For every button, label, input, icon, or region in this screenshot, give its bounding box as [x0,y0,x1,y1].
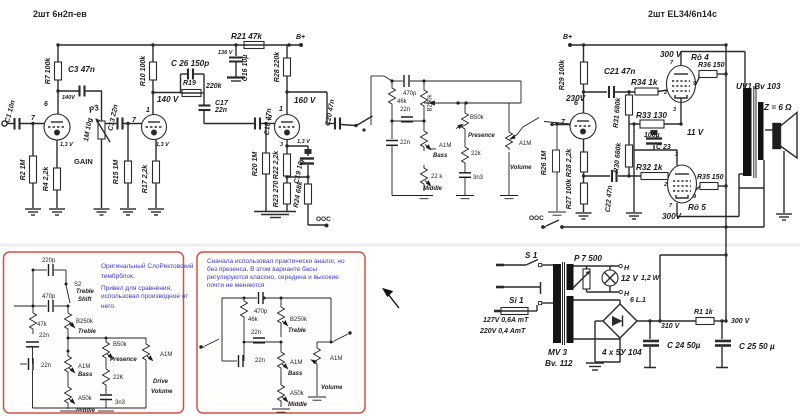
svg-text:Treble: Treble [288,328,307,334]
svg-text:47k: 47k [37,322,48,328]
svg-text:него.: него. [101,303,116,310]
svg-text:R34 1k: R34 1k [631,78,658,87]
svg-text:2: 2 [663,90,667,96]
svg-text:A50k: A50k [290,391,305,397]
svg-text:6: 6 [44,101,48,108]
svg-text:A1M: A1M [78,364,90,370]
svg-text:Z = 6 Ω: Z = 6 Ω [763,103,792,112]
svg-text:R36 150: R36 150 [698,62,725,69]
svg-text:22n: 22n [255,358,265,364]
svg-text:140 V: 140 V [157,95,180,104]
svg-text:127V 0,6A mT: 127V 0,6A mT [483,317,529,324]
svg-text:R27 100k: R27 100k [566,178,573,209]
svg-text:Bass: Bass [433,153,448,159]
svg-text:регулируются классно, середина: регулируются классно, середина и высокие [207,274,339,281]
svg-text:100µ: 100µ [644,132,660,139]
svg-text:22n: 22n [41,363,51,369]
svg-text:R29 100k: R29 100k [559,59,566,90]
svg-text:использовал производное от: использовал производное от [101,293,188,300]
svg-text:C 26 150p: C 26 150p [171,59,209,68]
svg-text:46k: 46k [397,99,408,105]
svg-text:22n: 22n [400,107,410,113]
svg-text:Volume: Volume [151,389,173,395]
svg-text:2шт EL34/6n14c: 2шт EL34/6n14c [648,9,717,19]
svg-text:Presence: Presence [110,357,137,363]
svg-text:почти не меняются: почти не меняются [207,282,265,289]
svg-text:OOC: OOC [529,215,544,222]
svg-text:2: 2 [267,115,272,122]
svg-text:B250k: B250k [290,317,308,323]
svg-text:A1M: A1M [160,352,172,358]
svg-text:22k: 22k [471,151,482,157]
svg-text:1,3 V: 1,3 V [60,142,74,148]
svg-text:1,3 V: 1,3 V [297,139,311,145]
svg-text:R7 100k: R7 100k [45,57,52,85]
svg-text:R22 2,2k: R22 2,2k [273,150,280,180]
svg-text:220V 0,4 AmT: 220V 0,4 AmT [479,328,526,335]
svg-text:C 24 50µ: C 24 50µ [667,341,701,350]
svg-text:11 V: 11 V [687,128,705,137]
svg-text:140V: 140V [62,95,76,101]
svg-text:3: 3 [675,152,678,158]
svg-text:R35 150: R35 150 [697,174,724,181]
svg-text:Bass: Bass [78,372,93,378]
svg-text:22n: 22n [400,140,410,146]
svg-text:Middle: Middle [288,402,308,408]
svg-text:A1M: A1M [290,360,302,366]
svg-text:3: 3 [280,142,283,148]
svg-text:без презенса. В этом варианте: без презенса. В этом варианте басы [207,265,317,273]
svg-text:Treble: Treble [78,329,97,335]
svg-text:Rö 4: Rö 4 [691,53,709,62]
svg-text:R1 1k: R1 1k [694,309,714,316]
svg-text:B250k: B250k [428,93,434,111]
svg-text:300V: 300V [662,212,683,221]
svg-text:B+: B+ [563,34,572,41]
svg-text:Rö 5: Rö 5 [688,203,706,212]
svg-text:1: 1 [146,107,150,114]
svg-text:22n: 22n [214,107,227,114]
svg-text:A1M: A1M [330,356,342,362]
svg-text:22 k: 22 k [431,174,443,180]
svg-text:R21 47k: R21 47k [231,32,262,41]
svg-text:Drive: Drive [153,379,169,385]
svg-text:R28 220k: R28 220k [274,51,281,82]
svg-text:R20 1M: R20 1M [252,152,259,177]
svg-text:A50k: A50k [78,396,93,402]
svg-text:46k: 46k [248,317,259,323]
svg-text:R26 1M: R26 1M [541,151,548,176]
svg-text:Bass: Bass [288,371,303,377]
svg-text:12 V: 12 V [621,274,639,283]
svg-text:1: 1 [279,106,283,113]
svg-text:Bv. 112: Bv. 112 [545,359,573,368]
svg-text:R2 1M: R2 1M [20,160,27,181]
svg-text:2шт 6н2п-ев: 2шт 6н2п-ев [33,9,87,19]
svg-text:C17: C17 [215,100,229,107]
svg-text:Si 1: Si 1 [509,296,524,305]
svg-text:B+: B+ [296,34,305,41]
svg-text:220k: 220k [205,83,223,90]
svg-text:B50k: B50k [113,342,128,348]
svg-text:тембрблок.: тембрблок. [101,272,135,280]
svg-text:22n: 22n [251,330,261,336]
svg-text:220p: 220p [42,258,56,264]
svg-text:MV 3: MV 3 [548,348,568,357]
svg-text:OOC: OOC [316,216,331,223]
svg-text:470p: 470p [254,309,268,315]
svg-text:22K: 22K [113,375,124,381]
svg-text:R17 2,2k: R17 2,2k [142,164,149,194]
svg-text:Volume: Volume [510,165,532,171]
svg-text:3n3: 3n3 [473,175,484,181]
svg-text:GAIN: GAIN [74,157,93,166]
svg-text:R33 130: R33 130 [636,111,667,120]
svg-text:160 V: 160 V [294,96,317,105]
svg-text:C21 47n: C21 47n [604,67,635,76]
svg-text:22n: 22n [39,333,49,339]
svg-text:Привел для сравнения,: Привел для сравнения, [101,285,172,292]
svg-text:4 x 5У 104: 4 x 5У 104 [601,348,642,357]
svg-text:R10 100k: R10 100k [140,55,147,86]
svg-text:S2: S2 [74,282,82,288]
svg-text:R32 1k: R32 1k [636,163,663,172]
svg-text:Volume: Volume [321,385,343,391]
svg-text:470p: 470p [403,91,417,97]
svg-text:C 25 50 µ: C 25 50 µ [739,342,775,351]
svg-text:1,3 V: 1,3 V [156,142,170,148]
svg-text:A1M: A1M [439,143,451,149]
svg-text:Middle: Middle [423,186,443,192]
svg-text:Middle: Middle [76,408,96,414]
svg-text:R4 2,2k: R4 2,2k [43,166,50,192]
svg-text:3n3: 3n3 [115,400,126,406]
svg-text:470p: 470p [42,294,56,300]
svg-text:Treble: Treble [76,289,95,295]
svg-text:B50k: B50k [470,115,485,121]
svg-text:R15 1M: R15 1M [113,160,120,185]
svg-text:C 23: C 23 [656,144,671,151]
svg-text:P 7 500: P 7 500 [574,254,602,263]
svg-text:300 V: 300 V [660,50,683,59]
svg-text:C16 10µ: C16 10µ [242,55,249,82]
svg-text:C3 47n: C3 47n [68,65,95,74]
svg-text:1,2 W: 1,2 W [641,275,661,282]
svg-text:6: 6 [574,100,578,107]
svg-text:300 V: 300 V [731,318,751,325]
svg-text:136 V: 136 V [218,50,234,56]
svg-text:S 1: S 1 [525,251,538,260]
svg-text:R28 2,2k: R28 2,2k [566,148,573,178]
svg-text:B250k: B250k [76,319,94,325]
svg-text:2: 2 [663,182,667,188]
svg-text:Сначала использовал практическ: Сначала использовал практически аналог, … [207,258,345,265]
svg-text:Оригинальный СлоРектовский: Оригинальный СлоРектовский [101,262,194,270]
svg-text:3: 3 [673,107,676,113]
svg-text:Shift: Shift [78,297,92,303]
svg-text:A1M: A1M [519,141,531,147]
svg-text:310 V: 310 V [661,323,681,330]
svg-text:Presence: Presence [468,133,495,139]
svg-text:R19: R19 [183,80,196,87]
svg-text:UV1 Bv 103: UV1 Bv 103 [736,82,781,91]
svg-text:6 L.1: 6 L.1 [630,297,646,304]
svg-text:R23 270: R23 270 [273,181,280,208]
